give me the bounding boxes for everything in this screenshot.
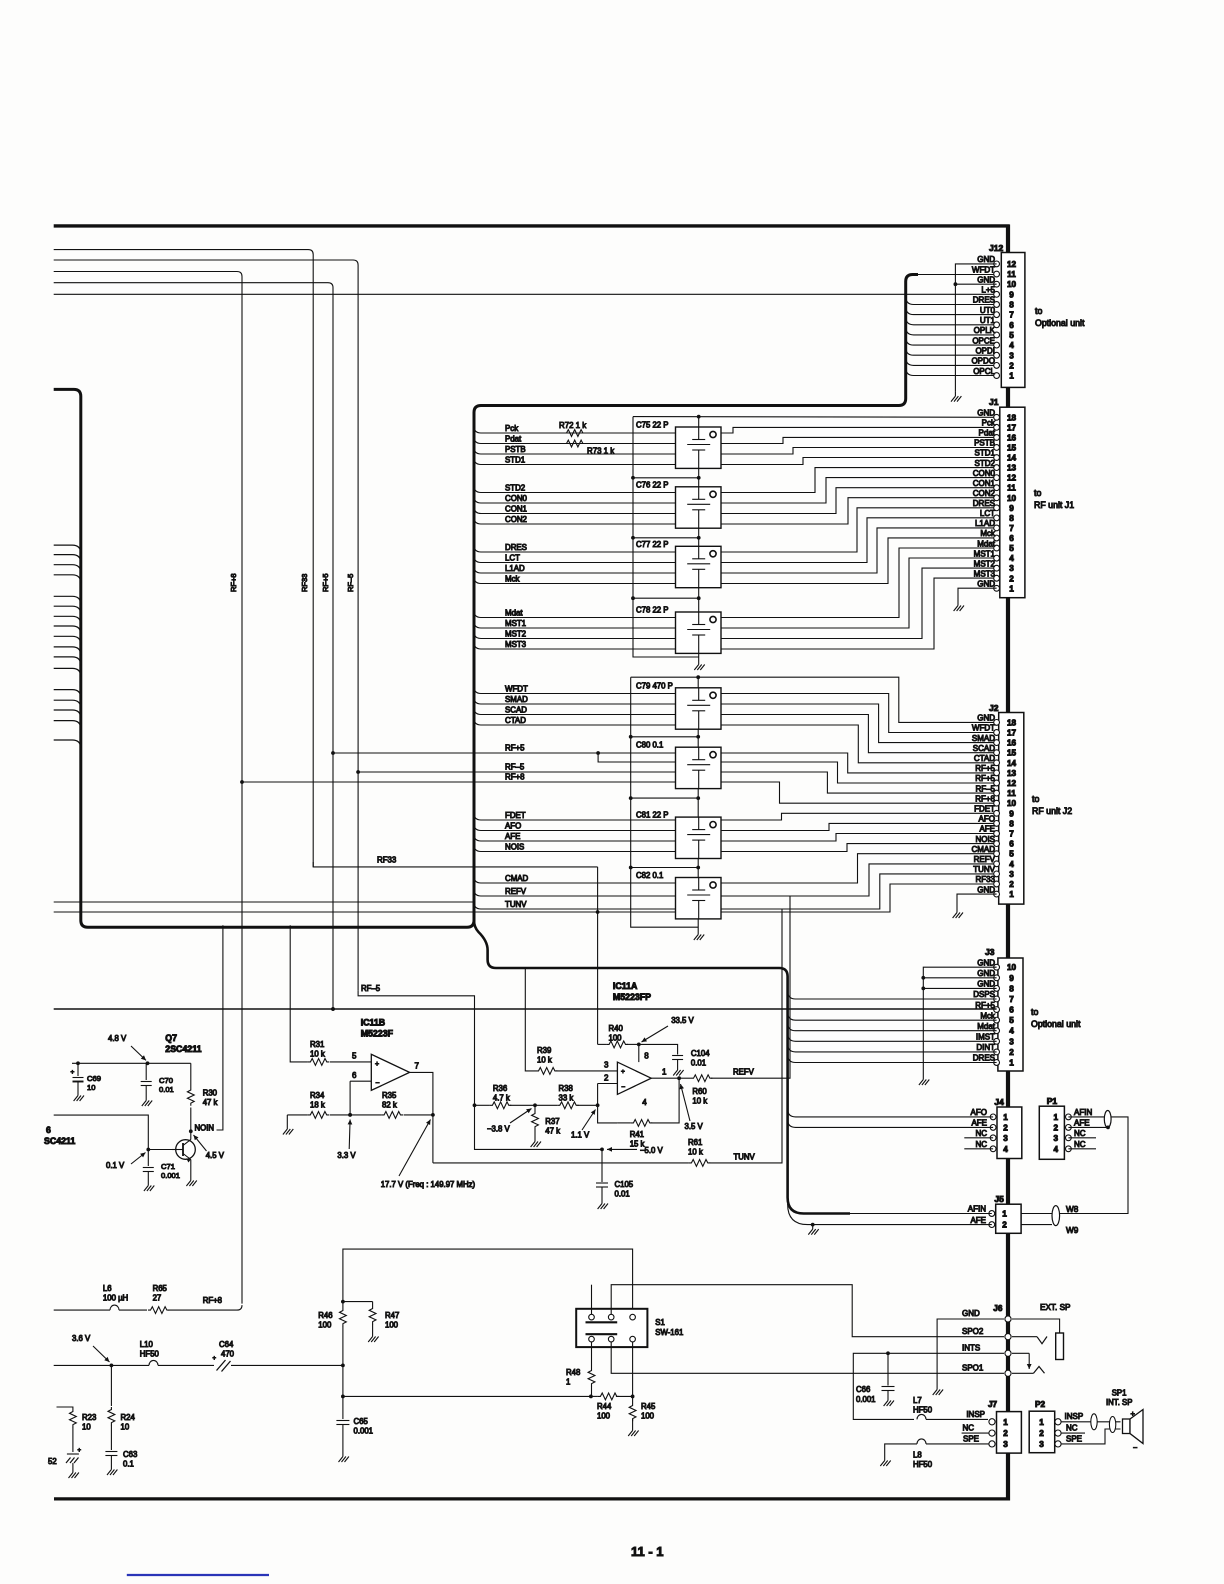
ground C105 (598, 1199, 608, 1209)
svg-text:Mck: Mck (980, 529, 996, 538)
resistor R44 100 (591, 1395, 598, 1397)
svg-text:4: 4 (1003, 1145, 1008, 1154)
svg-text:5: 5 (1009, 1016, 1014, 1025)
wire GND wire to J1 pin 18 (633, 416, 997, 419)
svg-text:NC: NC (1074, 1140, 1086, 1149)
svg-text:R41: R41 (630, 1130, 644, 1139)
connector J3 pin 5 Mck (980, 1011, 1014, 1025)
wire RF+8 wire to C80 (J2 pin 10) (242, 781, 676, 783)
svg-text:to: to (1032, 794, 1039, 804)
junction ties lower cap bank (631, 736, 699, 738)
junction C70 node (146, 1061, 150, 1065)
svg-text:10: 10 (82, 1423, 91, 1432)
svg-text:9: 9 (1009, 290, 1014, 299)
svg-text:MST1: MST1 (974, 549, 996, 558)
svg-text:DRES: DRES (973, 1054, 995, 1063)
wire RF33 horizontal from rail (313, 862, 597, 867)
capacitor C104 0.01 (639, 1044, 683, 1065)
svg-text:+: + (621, 1068, 625, 1075)
wire IC11B pin 6 input (350, 1080, 371, 1082)
svg-text:AFIN: AFIN (1074, 1108, 1092, 1117)
resistor R65 27 (148, 1307, 169, 1314)
svg-text:L10: L10 (140, 1340, 154, 1349)
connector J2 pin 14 CTAD (974, 754, 1017, 768)
wire P2 SPE to speaker (1061, 1429, 1121, 1444)
wire R23 top line (57, 1407, 73, 1409)
svg-text:RF+8: RF+8 (505, 773, 525, 782)
svg-text:1: 1 (1003, 1113, 1008, 1122)
connector J1 pin 6 Mck (980, 529, 1014, 543)
svg-text:47 k: 47 k (203, 1098, 218, 1107)
resistor R38 33 k (557, 1102, 578, 1109)
connector J2 pin 3 TUNV (973, 865, 1014, 879)
resistor R30 47 k (187, 1088, 194, 1106)
svg-text:5: 5 (1009, 850, 1014, 859)
svg-text:3.3 V: 3.3 V (337, 1151, 356, 1160)
capacitor C79 470 P feed-through box (676, 688, 722, 729)
capacitor C76 22 P feed-through box (676, 487, 722, 528)
svg-text:4: 4 (1009, 860, 1014, 869)
svg-text:CON2: CON2 (505, 515, 527, 524)
wire bus2 peel wires to J4 pins (788, 1109, 994, 1117)
wire inverting node of IC11A (598, 1084, 618, 1123)
ground for R34 (283, 1125, 293, 1135)
connector J1 pin 12 CON0 (973, 469, 1017, 483)
svg-text:NOIS: NOIS (505, 842, 524, 851)
connector J1 pin 18 GND (977, 409, 1016, 423)
svg-text:GND: GND (977, 255, 995, 264)
svg-text:NC: NC (1066, 1424, 1078, 1433)
wire S1 top pin2 to SPO2 (611, 1285, 1004, 1337)
svg-text:MST2: MST2 (505, 629, 526, 638)
wire INTS to switch arrow (1012, 1352, 1029, 1354)
svg-text:10: 10 (121, 1423, 130, 1432)
svg-text:RF unit J2: RF unit J2 (1032, 806, 1072, 816)
wire R34 input line (287, 1114, 308, 1116)
connector J1 pin 17 Pck (982, 419, 1017, 433)
svg-text:CTAD: CTAD (974, 754, 995, 763)
svg-text:3: 3 (1003, 1440, 1008, 1449)
svg-text:C66: C66 (856, 1385, 870, 1394)
svg-text:RF33: RF33 (377, 856, 397, 865)
svg-text:R60: R60 (692, 1087, 707, 1096)
svg-text:J5: J5 (994, 1194, 1004, 1204)
svg-text:+: + (213, 1356, 217, 1362)
wire P2 NC stub (1061, 1432, 1085, 1434)
svg-text:CMAD: CMAD (971, 845, 995, 854)
svg-text:17: 17 (1007, 729, 1017, 738)
svg-text:SC4211: SC4211 (44, 1136, 75, 1146)
svg-text:13: 13 (1007, 464, 1017, 473)
wire bus2 inner peel to J5 AFE with ground tap (788, 1204, 992, 1225)
connector J2 pin 18 GND (977, 714, 1016, 728)
ground R47 (368, 1332, 378, 1342)
ground on AFE line (808, 1225, 818, 1235)
svg-text:10: 10 (87, 1083, 95, 1092)
svg-text:AFE: AFE (1074, 1119, 1090, 1128)
svg-text:5: 5 (1009, 544, 1014, 553)
svg-text:R38: R38 (559, 1084, 573, 1093)
svg-text:Q7: Q7 (165, 1033, 177, 1043)
connector J2 pin 17 WFDT (972, 724, 1017, 738)
wire J3 GND pins to ground (923, 967, 996, 1075)
connector J1 pin 1 GND (977, 580, 1014, 594)
wire RF-5 continued to -5.0V node (475, 1105, 603, 1149)
svg-text:SP1: SP1 (1112, 1389, 1127, 1398)
wire P2 INSP to speaker (1061, 1421, 1121, 1423)
svg-text:RF+5: RF+5 (975, 764, 995, 773)
svg-text:17.7 V (Freq : 149.97 MHz): 17.7 V (Freq : 149.97 MHz) (381, 1180, 476, 1189)
connector J1 pin 4 MST1 (974, 549, 1015, 563)
connector J1 pin 11 CON1 (973, 479, 1017, 493)
svg-text:GND: GND (977, 409, 995, 418)
svg-text:8: 8 (1009, 984, 1014, 993)
svg-text:15: 15 (1007, 443, 1017, 452)
svg-text:1: 1 (662, 1068, 667, 1077)
svg-text:9: 9 (1009, 504, 1014, 513)
ground C104 (673, 1066, 683, 1076)
connector J1 body (1000, 407, 1025, 598)
svg-text:16: 16 (1007, 433, 1017, 442)
inductor L8 HF50 (917, 1439, 926, 1444)
ground C66 (884, 1396, 894, 1406)
wire J2 pin1 GND to ground (957, 894, 997, 908)
svg-text:DRES: DRES (505, 543, 527, 552)
svg-text:IMST: IMST (976, 1033, 995, 1042)
svg-text:AFE: AFE (971, 1119, 987, 1128)
connector J12 pin 4 OPCE (972, 336, 1014, 350)
resistor R23 10 (70, 1409, 77, 1427)
svg-text:RF+8: RF+8 (203, 1296, 222, 1305)
svg-text:L1AD: L1AD (505, 564, 525, 573)
svg-text:SPE: SPE (963, 1435, 979, 1444)
cable marker on P1 AFIN wire (1104, 1111, 1111, 1128)
decorative blue rule (127, 1574, 269, 1576)
ground R45 (628, 1426, 638, 1436)
wire GND to jack sleeve (1012, 1319, 1060, 1333)
svg-text:IC11A: IC11A (613, 981, 638, 991)
svg-text:CON1: CON1 (973, 479, 996, 488)
svg-text:RF+5: RF+5 (321, 573, 330, 592)
svg-text:12: 12 (1007, 260, 1017, 269)
svg-text:HF50: HF50 (140, 1350, 160, 1359)
capacitor C78 22 P feed-through box (676, 612, 722, 653)
capacitor C64 470 (series) (217, 1360, 231, 1372)
svg-text:Mdat: Mdat (505, 608, 523, 617)
connector P2 pin 2 (1039, 1429, 1061, 1438)
wire S1 bottom pin3 down to R45 (632, 1342, 634, 1403)
connector J12 pin 7 UT0 (980, 306, 1014, 320)
wire J7 NC stub (962, 1432, 989, 1434)
jack contact for SPO1 (1034, 1367, 1045, 1374)
svg-text:STD2: STD2 (975, 459, 996, 468)
svg-text:J3: J3 (985, 947, 995, 957)
svg-text:RF+8: RF+8 (229, 573, 238, 592)
connector J3 pin 1 DRES (973, 1054, 1014, 1068)
connector P2 pin 3 (1039, 1440, 1061, 1449)
svg-text:WFDT: WFDT (972, 724, 995, 733)
svg-text:AFO: AFO (505, 821, 521, 830)
svg-text:10 k: 10 k (310, 1050, 325, 1059)
connector J2 pin 13 RF+5 (975, 764, 1016, 778)
svg-text:1: 1 (1009, 890, 1014, 899)
svg-text:INSP: INSP (1065, 1412, 1084, 1421)
svg-text:to: to (1034, 488, 1041, 498)
svg-text:C104: C104 (691, 1049, 710, 1058)
svg-text:2: 2 (1009, 574, 1014, 583)
wire R47 tie (343, 1301, 373, 1303)
svg-text:R45: R45 (641, 1402, 656, 1411)
svg-text:OPLK: OPLK (974, 326, 996, 335)
wire J1 pin1 GND to ground (958, 588, 997, 601)
svg-text:J12: J12 (989, 243, 1003, 253)
svg-text:100: 100 (318, 1321, 332, 1330)
wire J4 NC stubs (964, 1137, 993, 1139)
svg-text:STD1: STD1 (975, 449, 996, 458)
wire GND J6 (937, 1319, 1004, 1385)
svg-text:GND: GND (977, 980, 995, 989)
svg-text:R44: R44 (597, 1402, 612, 1411)
svg-text:1: 1 (1039, 1418, 1044, 1427)
wire R65 to RF+8 rail (168, 1309, 237, 1311)
svg-text:5: 5 (352, 1052, 357, 1061)
svg-text:15: 15 (1007, 749, 1017, 758)
svg-text:−: − (621, 1084, 625, 1091)
connector J3 pin 2 DINT (976, 1043, 1014, 1057)
svg-text:CON1: CON1 (505, 504, 527, 513)
wire SPE line through L8 (926, 1443, 989, 1445)
svg-text:RF–5: RF–5 (505, 763, 525, 772)
ground L8 (880, 1456, 890, 1466)
connector P1 pin 2 AFE (1054, 1119, 1090, 1133)
svg-text:11: 11 (1007, 789, 1016, 798)
svg-text:IC11B: IC11B (361, 1018, 385, 1028)
wire RF+5 wire to C80 (J2 pins 13/12) (333, 752, 676, 754)
junction ties upper cap bank (633, 477, 699, 479)
ground C71 (144, 1181, 154, 1191)
svg-text:3: 3 (1009, 351, 1014, 360)
wire J12 GND pins to ground (955, 264, 996, 392)
svg-text:100 µH: 100 µH (103, 1294, 128, 1303)
wire C64 to R46 node (231, 1364, 343, 1366)
svg-text:10: 10 (1007, 280, 1017, 289)
svg-text:100: 100 (641, 1412, 655, 1421)
svg-text:10 k: 10 k (688, 1148, 703, 1157)
svg-text:13: 13 (1007, 769, 1017, 778)
connector J1 pin 8 LCT (980, 509, 1014, 523)
svg-text:8: 8 (1009, 514, 1014, 523)
svg-text:C69: C69 (87, 1074, 101, 1083)
svg-text:R31: R31 (310, 1040, 324, 1049)
svg-text:9: 9 (1009, 809, 1014, 818)
wire cable bus from left edge down and around to J12 peel (54, 275, 918, 928)
svg-text:EXT. SP: EXT. SP (1040, 1303, 1071, 1312)
inductor L6 100 uH (110, 1305, 119, 1310)
svg-text:L6: L6 (103, 1284, 112, 1293)
connector J7 body (997, 1412, 1022, 1454)
jack EXT SP body (1056, 1333, 1064, 1360)
wire R31 to IC11B pin 5 (330, 1061, 371, 1063)
svg-text:11: 11 (1007, 270, 1016, 279)
wire R31 supply feed from cable bus (290, 925, 308, 1062)
svg-text:Optional unit: Optional unit (1031, 1019, 1081, 1029)
svg-text:R40: R40 (609, 1024, 624, 1033)
svg-text:RF33: RF33 (975, 875, 995, 884)
svg-text:6: 6 (352, 1071, 357, 1080)
wire NOIN net to cable bus (217, 925, 223, 1130)
resistor R24 10 (108, 1407, 115, 1425)
svg-text:RF–5: RF–5 (361, 984, 381, 993)
wire net RF+5 top feed (54, 283, 333, 1009)
connector J2 pin 11 RF–5 (975, 784, 1016, 798)
svg-text:2: 2 (1009, 1048, 1014, 1057)
svg-text:0.001: 0.001 (161, 1171, 180, 1180)
wire cable bus 2 from bus1 fork to AFIN (474, 920, 850, 1213)
svg-text:6: 6 (46, 1125, 51, 1135)
switch S1 SW-161 (576, 1309, 647, 1347)
svg-text:C77 22 P: C77 22 P (636, 540, 669, 549)
connector J1 pin 15 PSTB (974, 439, 1016, 453)
resistor R47 100 (369, 1306, 376, 1324)
svg-text:R37: R37 (545, 1117, 559, 1126)
svg-text:OPDO: OPDO (971, 357, 995, 366)
wire net RF33 top feed (54, 250, 314, 862)
svg-text:to: to (1035, 306, 1042, 316)
svg-text:WFDT: WFDT (505, 684, 528, 693)
svg-text:to: to (1031, 1007, 1038, 1017)
svg-text:2SC4211: 2SC4211 (165, 1044, 201, 1054)
svg-text:R34: R34 (310, 1091, 325, 1100)
wire main right bus (to connectors J12-J7) (1006, 225, 1010, 1501)
connector J2 body (999, 713, 1024, 905)
wire inverting node vertical (pin6 to R34/R35) (349, 1081, 351, 1115)
svg-text:11 - 1: 11 - 1 (631, 1544, 664, 1559)
ground J1 pin1 (954, 601, 964, 611)
svg-text:C75 22 P: C75 22 P (636, 421, 669, 430)
svg-text:R47: R47 (385, 1311, 399, 1320)
svg-text:CTAD: CTAD (505, 716, 526, 725)
svg-text:CON2: CON2 (973, 489, 996, 498)
svg-text:RF–5: RF–5 (346, 574, 355, 592)
svg-text:OPCE: OPCE (972, 336, 995, 345)
svg-text:2: 2 (1039, 1429, 1044, 1438)
connector J12 pin 6 UT1 (980, 316, 1014, 330)
op-amp IC11B M5223F (371, 1054, 409, 1090)
svg-text:4: 4 (1009, 554, 1014, 563)
svg-text:18: 18 (1007, 718, 1017, 727)
svg-text:GND: GND (977, 714, 995, 723)
connector J4 pin 1 AFO (971, 1108, 1009, 1122)
svg-text:OPCL: OPCL (973, 367, 995, 376)
svg-text:WFDT: WFDT (972, 265, 995, 274)
connector J2 pin 9 FDET (974, 805, 1014, 819)
connector P2 body (1029, 1411, 1055, 1453)
connector J3 pin 3 IMST (976, 1033, 1014, 1047)
svg-text:7: 7 (1009, 311, 1014, 320)
ground R37 (531, 1137, 541, 1147)
svg-text:CMAD: CMAD (505, 874, 529, 883)
svg-text:MST2: MST2 (974, 559, 996, 568)
svg-text:−: − (375, 1080, 379, 1087)
svg-text:L8: L8 (913, 1451, 922, 1460)
svg-text:S1: S1 (655, 1318, 665, 1327)
connector J12 pin 8 DRES (973, 296, 1014, 310)
svg-text:C76 22 P: C76 22 P (636, 480, 669, 489)
svg-text:−: − (1133, 1443, 1138, 1452)
speaker SP1 INT. SP (1123, 1409, 1144, 1452)
wire GND wire from lower cap bus to J2 pin 18 (698, 677, 996, 722)
resistor R73 1 k (564, 440, 585, 447)
svg-text:7: 7 (415, 1062, 420, 1071)
svg-text:7: 7 (1009, 524, 1014, 533)
svg-text:REFV: REFV (974, 855, 996, 864)
svg-text:0.01: 0.01 (615, 1190, 630, 1199)
svg-text:GND: GND (962, 1309, 980, 1318)
wire S1 bottom pin1 to R48 (591, 1342, 593, 1368)
svg-text:INSP: INSP (966, 1410, 985, 1419)
svg-text:LCT: LCT (980, 509, 995, 518)
svg-text:RF–5: RF–5 (975, 784, 995, 793)
resistor R46 100 (340, 1308, 347, 1326)
wire IC11B output pin 7 (410, 1072, 433, 1163)
wire net L+5 to J12 pin 9 (54, 293, 997, 295)
connector J1 pin 16 Pdat (979, 429, 1017, 443)
capacitor C65 0.001 (336, 1421, 349, 1453)
connector J1 pin 2 MST3 (974, 569, 1015, 583)
wire R39 feed from bus branch (525, 968, 536, 1071)
connector J2 pin 16 SMAD (972, 734, 1017, 748)
resistor R37 47 k (532, 1111, 539, 1129)
svg-text:R36: R36 (493, 1084, 507, 1093)
svg-text:P1: P1 (1047, 1096, 1058, 1106)
svg-text:R61: R61 (688, 1138, 702, 1147)
connector J7 pin 3 (989, 1440, 1008, 1449)
connector J1 pin 7 L1AD (975, 519, 1014, 533)
svg-text:R73 1 k: R73 1 k (587, 447, 614, 456)
wire staircase C75-C78 outputs to connector J1 (721, 427, 997, 433)
svg-text:+: + (1131, 1409, 1136, 1418)
svg-text:AFE: AFE (505, 832, 520, 841)
svg-text:TUNV: TUNV (505, 900, 527, 909)
connector J12 pin 12 GND (977, 255, 1016, 269)
wire R39 to IC11A pin 3 (556, 1070, 617, 1072)
resistor R40 100 (607, 1041, 628, 1048)
svg-text:R65: R65 (153, 1284, 168, 1293)
wire C65 branch (342, 1365, 344, 1396)
wire RF+5 branch to pin 12 (598, 753, 676, 762)
connector J4 body (997, 1107, 1022, 1159)
svg-text:0.001: 0.001 (856, 1395, 876, 1404)
connector J3 pin 6 RF+5 (975, 1001, 1014, 1015)
svg-text:SW-161: SW-161 (655, 1328, 683, 1337)
wire 3.6V line from page edge (54, 1364, 112, 1366)
resistor R31 10 k (308, 1059, 329, 1066)
svg-text:AFO: AFO (979, 815, 995, 824)
svg-text:1: 1 (1009, 584, 1014, 593)
svg-text:33 k: 33 k (559, 1094, 574, 1103)
svg-text:10: 10 (1007, 799, 1017, 808)
svg-text:1: 1 (1054, 1113, 1059, 1122)
connector P2 pin 1 (1039, 1418, 1061, 1427)
svg-text:16: 16 (1007, 739, 1017, 748)
capacitor C70 0.01 (141, 1063, 152, 1096)
connector J3 pin 8 GND (977, 980, 1014, 994)
capacitor C69 10 (electrolytic) (73, 1063, 84, 1091)
svg-text:L1AD: L1AD (975, 519, 995, 528)
svg-text:J7: J7 (988, 1400, 998, 1409)
ground C70 (142, 1096, 152, 1106)
svg-text:4.7 k: 4.7 k (493, 1094, 510, 1103)
